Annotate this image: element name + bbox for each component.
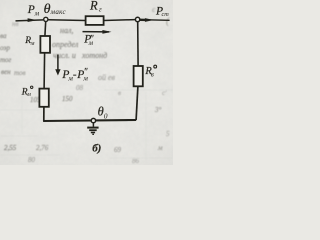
- resistor R_м°: [39, 89, 48, 107]
- svg-text:ст: ст: [162, 11, 170, 18]
- wire: right node to R_в°: [137, 22, 139, 66]
- node θ_0: [91, 118, 95, 122]
- svg-text:ва: ва: [0, 32, 7, 40]
- svg-text:м: м: [34, 9, 40, 17]
- resistor R_м: [40, 36, 50, 53]
- node right (junction): [135, 17, 139, 21]
- wire: top-left with input arrow P_м: [16, 20, 44, 21]
- wire: top rail node to R_г: [48, 19, 86, 22]
- node θ_макс: [44, 17, 48, 21]
- svg-text:″: ″: [90, 34, 94, 44]
- resistor R_г: [86, 16, 104, 25]
- resistor R_в°: [134, 66, 143, 86]
- svg-text:м: м: [157, 144, 163, 152]
- svg-text:тог: тог: [0, 56, 12, 64]
- svg-text:69: 69: [114, 146, 122, 154]
- faint bleed-through texture (decorative): [0, 0, 173, 165]
- svg-text:в: в: [151, 70, 154, 78]
- svg-text:ой ев: ой ев: [98, 73, 116, 82]
- svg-text:макс: макс: [50, 8, 67, 16]
- svg-text:м: м: [30, 41, 35, 47]
- wire: R_г to right node: [104, 19, 136, 22]
- svg-text:вен: вен: [1, 68, 11, 76]
- ground symbol: [92, 123, 94, 127]
- svg-text:оэр: оэр: [0, 44, 10, 52]
- svg-text:б): б): [92, 142, 101, 154]
- svg-text:0: 0: [104, 112, 108, 121]
- svg-text:5: 5: [166, 130, 170, 138]
- wire: R_в° to bottom rail: [136, 86, 138, 120]
- svg-text:г: г: [99, 4, 102, 13]
- svg-text:2,76: 2,76: [36, 144, 49, 152]
- svg-text:08: 08: [76, 84, 84, 92]
- svg-text:2,55: 2,55: [4, 144, 17, 152]
- svg-text:-: -: [73, 69, 77, 81]
- wire/arrow P_ст output: [140, 19, 169, 22]
- arrow P_м″ (flow through R_г): [83, 31, 110, 33]
- svg-text:тов: тов: [14, 69, 26, 77]
- svg-text:определ: определ: [52, 40, 79, 49]
- arrow P_м-P_м″ (down): [57, 55, 59, 72]
- wire: node to R_м: [44, 22, 47, 37]
- svg-text:хотонд: хотонд: [81, 51, 107, 60]
- svg-text:м: м: [26, 92, 31, 98]
- svg-text:нал,: нал,: [60, 26, 73, 35]
- wire: bottom rail: [43, 120, 136, 121]
- svg-text:числ. и: числ. и: [53, 51, 76, 60]
- svg-text:150: 150: [62, 95, 73, 103]
- svg-text:″: ″: [84, 66, 88, 76]
- svg-text:80: 80: [28, 156, 36, 164]
- svg-text:R: R: [89, 0, 98, 13]
- wire: R_м° to bottom rail: [43, 107, 45, 121]
- wire: R_м to R_м°: [43, 53, 46, 89]
- svg-text:3°: 3°: [154, 106, 162, 114]
